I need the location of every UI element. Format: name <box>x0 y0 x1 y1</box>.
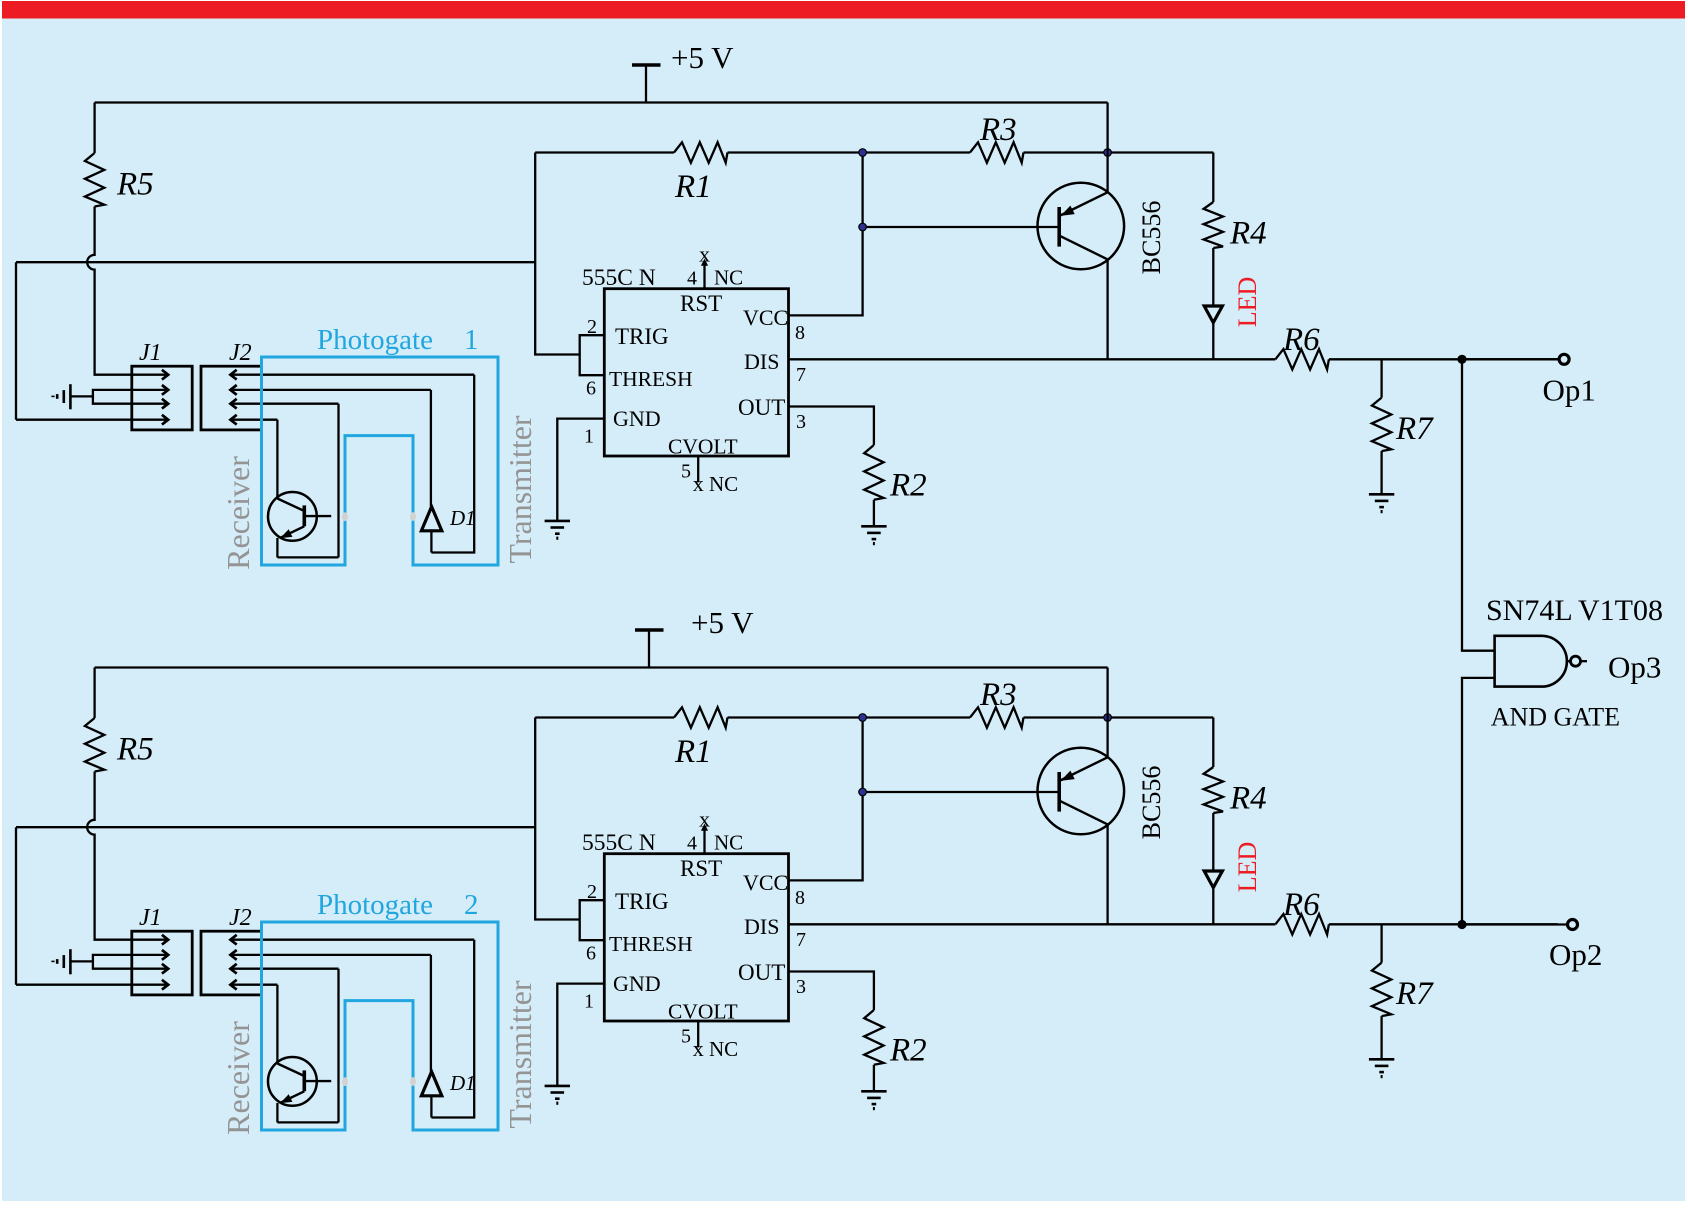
wire: R5 down to J1 pin1 (with hop) (photogate 2 channel) <box>87 772 132 940</box>
wire: rail down to junction (photogate 1 channel) <box>1106 103 1108 153</box>
wire: J1 pins 2-3 tie (photogate 1 channel) <box>93 390 132 404</box>
svg-text:Photogate: Photogate <box>317 324 433 356</box>
svg-text:TRIG: TRIG <box>615 889 669 914</box>
resistor R3 (photogate 2 channel) <box>970 707 1024 727</box>
svg-text:THRESH: THRESH <box>609 932 693 956</box>
svg-text:J2: J2 <box>229 340 252 366</box>
phototransistor circle (photogate 2 channel) <box>268 1057 317 1106</box>
junction dot Op2 node <box>1457 920 1466 929</box>
wire: receiver collector drop (photogate 2 channel) <box>276 985 278 1064</box>
svg-text:DIS: DIS <box>744 914 779 939</box>
svg-text:6: 6 <box>586 378 596 400</box>
svg-text:5: 5 <box>681 1026 691 1048</box>
wire: D1 anode up to J2 pin2 row (photogate 1 channel) <box>430 390 432 507</box>
LED symbol (photogate 2 channel) <box>1204 871 1222 888</box>
svg-text:R4: R4 <box>1229 781 1267 817</box>
IC 555 box (photogate 1 channel) <box>604 289 788 456</box>
wire: collector down to DIS row (photogate 1 channel) <box>1106 259 1108 359</box>
svg-text:D1: D1 <box>449 1071 476 1095</box>
svg-text:CVOLT: CVOLT <box>668 999 738 1023</box>
svg-text:x: x <box>699 807 710 832</box>
phototransistor body (photogate 1 channel) <box>277 499 331 539</box>
resistor R2 (photogate 1 channel) <box>864 445 883 500</box>
svg-text:NC: NC <box>709 472 738 496</box>
svg-text:+5 V: +5 V <box>671 40 734 75</box>
svg-text:RST: RST <box>680 291 722 316</box>
svg-text:R6: R6 <box>1282 887 1320 923</box>
wire: GND pin 1 (photogate 2 channel) <box>557 984 604 1086</box>
wire: receiver up to J2 pin3 row (photogate 1 channel) <box>337 404 339 558</box>
+5V supply symbol (photogate 1 channel) <box>632 65 661 103</box>
resistor R1 (photogate 1 channel) <box>674 142 728 162</box>
wire: R6 to output terminal (photogate 1 channel) <box>1329 358 1558 360</box>
AND gate U1 body <box>1495 636 1567 687</box>
wire: OUT pin 3 (photogate 1 channel) <box>789 407 874 446</box>
wire: J1 pins 2-3 tie (photogate 2 channel) <box>93 955 132 969</box>
svg-text:RST: RST <box>680 856 722 881</box>
diode D1 (IR LED) (photogate 1 channel) <box>421 507 441 531</box>
wire: +5V rail (photogate 2 channel) <box>95 666 1108 668</box>
J1 pin 4 arrow (photogate 1 channel) <box>132 415 168 425</box>
svg-text:SN74L: SN74L <box>1486 594 1573 627</box>
wire: to R4 (photogate 1 channel) <box>1212 153 1214 203</box>
resistor R4 (photogate 1 channel) <box>1204 202 1223 248</box>
svg-text:Op2: Op2 <box>1549 937 1602 972</box>
wire: R3 to R4 branch (photogate 1 channel) <box>1024 151 1214 153</box>
svg-text:Receiver: Receiver <box>220 456 256 570</box>
IC pin labels (photogate 2 channel) <box>609 856 788 1023</box>
resistor R6 (photogate 2 channel) <box>1275 914 1329 934</box>
wire: +5V rail (photogate 1 channel) <box>95 101 1108 103</box>
photogate 1 enclosure (blue) (photogate 1 channel) <box>262 357 499 565</box>
svg-text:J1: J1 <box>139 340 162 366</box>
svg-text:VCC: VCC <box>743 305 788 330</box>
wire: Op2 to AND gate input 2 <box>1462 678 1495 925</box>
svg-text:2: 2 <box>464 889 479 921</box>
junction dot emitter (photogate 2 channel) <box>1104 714 1112 722</box>
svg-text:R2: R2 <box>889 468 927 504</box>
svg-text:GND: GND <box>613 406 661 431</box>
chassis ground at J1 (photogate 1 channel) <box>53 384 70 409</box>
wire: left vertical (photogate 1 channel) <box>15 262 17 420</box>
svg-text:6: 6 <box>586 943 596 965</box>
J2 pin 1 arrow and wire (photogate 2 channel) <box>230 935 474 945</box>
svg-text:Transmitter: Transmitter <box>502 415 538 564</box>
junction dot base (photogate 1 channel) <box>859 223 867 231</box>
wire: to R7 (photogate 1 channel) <box>1380 359 1382 397</box>
resistor R4 (photogate 2 channel) <box>1204 767 1223 813</box>
svg-text:R5: R5 <box>116 167 154 203</box>
wire: TRIG feed horizontal (photogate 2 channel) <box>16 826 535 828</box>
wire: receiver bottom (photogate 2 channel) <box>277 1121 338 1123</box>
wire: ground lead (photogate 1 channel) <box>70 395 93 397</box>
wire: bottom to J1 pin4 (photogate 2 channel) <box>16 984 132 986</box>
ground at 555 GND (photogate 2 channel) <box>545 1086 570 1103</box>
phototransistor circle (photogate 1 channel) <box>268 492 317 541</box>
svg-text:4: 4 <box>687 268 697 290</box>
junction dot base (photogate 2 channel) <box>859 788 867 796</box>
svg-text:OUT: OUT <box>738 395 785 420</box>
svg-text:3: 3 <box>796 411 806 433</box>
svg-text:4: 4 <box>687 833 697 855</box>
svg-text:Transmitter: Transmitter <box>502 980 538 1129</box>
red header bar <box>2 1 1685 19</box>
optical axis dot right (photogate 1 channel) <box>410 512 416 521</box>
wire: VCC pin 8 (photogate 2 channel) <box>789 718 863 881</box>
IC pin numbers (photogate 1 channel) <box>584 268 806 483</box>
IC pin numbers (photogate 2 channel) <box>584 833 806 1048</box>
wire: receiver up to J2 pin3 row (photogate 2 channel) <box>337 969 339 1123</box>
svg-text:CVOLT: CVOLT <box>668 434 738 458</box>
wire: R4 to LED (photogate 1 channel) <box>1212 248 1214 306</box>
J2 pin 2 arrow and wire (photogate 2 channel) <box>230 950 431 960</box>
photogate 2 enclosure (blue) (photogate 2 channel) <box>262 922 499 1130</box>
J2 pin 3 arrow and wire (photogate 1 channel) <box>230 399 338 409</box>
svg-text:NC: NC <box>714 831 743 855</box>
connector J1 box (photogate 2 channel) <box>132 931 192 995</box>
svg-text:5: 5 <box>681 461 691 483</box>
svg-text:BC556: BC556 <box>1137 201 1166 275</box>
wire: Op1 node to terminal <box>1462 358 1558 360</box>
pin 4 NC stub with arrow (photogate 1 channel) <box>701 259 708 289</box>
svg-text:J1: J1 <box>139 905 162 931</box>
wire: R7 to ground (photogate 2 channel) <box>1380 1016 1382 1059</box>
wire: bottom to J1 pin4 (photogate 1 channel) <box>16 419 132 421</box>
wire: OUT pin 3 (photogate 2 channel) <box>789 972 874 1011</box>
wire: emitter down (photogate 1 channel) <box>276 538 278 557</box>
wire: R4 to LED (photogate 2 channel) <box>1212 813 1214 871</box>
svg-text:R1: R1 <box>674 169 712 205</box>
svg-text:TRIG: TRIG <box>615 324 669 349</box>
svg-text:8: 8 <box>795 887 805 909</box>
junction dot R1/R3 (photogate 2 channel) <box>859 714 867 722</box>
phototransistor body (photogate 2 channel) <box>277 1064 331 1104</box>
J2 pin 4 arrow and wire (photogate 2 channel) <box>230 980 277 990</box>
wire: R3 to R4 branch (photogate 2 channel) <box>1024 716 1214 718</box>
pin 5 NC stub (photogate 1 channel) <box>697 456 699 483</box>
+5V supply symbol (photogate 2 channel) <box>635 630 664 668</box>
svg-text:NC: NC <box>714 266 743 290</box>
J2 pin 2 arrow and wire (photogate 1 channel) <box>230 385 431 395</box>
svg-text:R3: R3 <box>979 677 1017 713</box>
svg-text:AND GATE: AND GATE <box>1491 702 1620 731</box>
wire: receiver bottom (photogate 1 channel) <box>277 556 338 558</box>
wire: DIS row (photogate 1 channel) <box>789 358 1276 360</box>
wire: Op2 node to terminal <box>1462 923 1566 925</box>
resistor R3 (photogate 1 channel) <box>970 142 1024 162</box>
wire: LED to DIS row (photogate 1 channel) <box>1212 323 1214 360</box>
svg-text:Photogate: Photogate <box>317 889 433 921</box>
svg-text:DIS: DIS <box>744 349 779 374</box>
svg-text:555C N: 555C N <box>582 265 656 291</box>
svg-text:8: 8 <box>795 322 805 344</box>
wire: junction down to emitter (photogate 2 channel) <box>1106 718 1108 758</box>
svg-text:3: 3 <box>796 976 806 998</box>
junction dot emitter (photogate 1 channel) <box>1104 149 1112 157</box>
svg-text:Op1: Op1 <box>1543 373 1596 408</box>
wire: transmitter right drop (photogate 1 channel) <box>431 375 474 553</box>
svg-text:x: x <box>693 471 704 496</box>
J1 pin 2 arrow (photogate 2 channel) <box>132 950 168 960</box>
svg-text:R5: R5 <box>116 732 154 768</box>
wire: R1 to R3 (photogate 2 channel) <box>728 716 971 718</box>
svg-text:R7: R7 <box>1395 411 1434 447</box>
wire: to R7 (photogate 2 channel) <box>1380 924 1382 962</box>
resistor R2 (photogate 2 channel) <box>864 1010 883 1065</box>
wire: VCC pin 8 (photogate 1 channel) <box>789 153 863 316</box>
connector J2 box (photogate 1 channel) <box>201 366 262 430</box>
LED symbol (photogate 1 channel) <box>1204 306 1222 323</box>
svg-text:LED: LED <box>1233 842 1262 893</box>
wire: D1 anode up to J2 pin2 row (photogate 2 channel) <box>430 955 432 1072</box>
svg-text:GND: GND <box>613 971 661 996</box>
wire: LED to DIS row (photogate 2 channel) <box>1212 888 1214 925</box>
terminal Op1 <box>1559 354 1569 364</box>
AND gate output bubble <box>1567 656 1587 666</box>
ground at R7 (photogate 1 channel) <box>1369 494 1394 511</box>
resistor R5 (photogate 1 channel) <box>85 153 104 207</box>
svg-text:R2: R2 <box>889 1033 927 1069</box>
connector J2 box (photogate 2 channel) <box>201 931 262 995</box>
wire: emitter down (photogate 2 channel) <box>276 1103 278 1122</box>
wire: to R4 (photogate 2 channel) <box>1212 718 1214 768</box>
resistor R1 (photogate 2 channel) <box>674 707 728 727</box>
wire: base wire (photogate 2 channel) <box>863 791 1060 793</box>
resistor R7 (photogate 2 channel) <box>1372 963 1391 1017</box>
svg-text:D1: D1 <box>449 506 476 530</box>
J1 pin 1 arrow (photogate 1 channel) <box>132 370 168 380</box>
wire: rail to R5 (photogate 1 channel) <box>93 103 95 154</box>
wire: R1 to R3 (photogate 1 channel) <box>728 151 971 153</box>
resistor R5 (photogate 2 channel) <box>85 718 104 772</box>
J1 pin 4 arrow (photogate 2 channel) <box>132 980 168 990</box>
svg-text:555C N: 555C N <box>582 830 656 856</box>
svg-text:NC: NC <box>709 1037 738 1061</box>
svg-text:+5 V: +5 V <box>691 605 754 640</box>
svg-text:VCC: VCC <box>743 870 788 895</box>
J1 pin 1 arrow (photogate 2 channel) <box>132 935 168 945</box>
diode D1 (IR LED) (photogate 2 channel) <box>421 1072 441 1096</box>
J2 pin 4 arrow and wire (photogate 1 channel) <box>230 415 277 425</box>
wire: Op1 to AND gate input 1 <box>1462 359 1495 650</box>
resistor R6 (photogate 1 channel) <box>1275 349 1329 369</box>
svg-text:Receiver: Receiver <box>220 1021 256 1135</box>
svg-text:Op3: Op3 <box>1608 650 1661 685</box>
svg-text:1: 1 <box>584 991 594 1013</box>
wire: R1 row left (photogate 1 channel) <box>535 151 674 153</box>
junction dot R1/R3 (photogate 1 channel) <box>859 149 867 157</box>
wire: receiver collector drop (photogate 1 channel) <box>276 420 278 499</box>
wire: junction down to emitter (photogate 1 channel) <box>1106 153 1108 193</box>
svg-text:7: 7 <box>796 929 806 951</box>
svg-text:R7: R7 <box>1395 976 1434 1012</box>
J2 pin 1 arrow and wire (photogate 1 channel) <box>230 370 474 380</box>
svg-text:THRESH: THRESH <box>609 367 693 391</box>
wire: feed vertical from R1 (photogate 1 channel) <box>535 153 580 355</box>
wire: D1 cathode lead (photogate 2 channel) <box>430 1096 432 1118</box>
wire: R7 to ground (photogate 1 channel) <box>1380 451 1382 494</box>
connector J1 box (photogate 1 channel) <box>132 366 192 430</box>
wire: R1 row left (photogate 2 channel) <box>535 716 674 718</box>
wire: TRIG feed horizontal (photogate 1 channel) <box>16 261 535 263</box>
resistor R7 (photogate 1 channel) <box>1372 398 1391 452</box>
svg-text:x: x <box>693 1036 704 1061</box>
wire: base wire (photogate 1 channel) <box>863 226 1060 228</box>
junction dot Op1 node <box>1457 355 1466 364</box>
optical axis dot left (photogate 1 channel) <box>342 512 348 521</box>
wire: rail to R5 (photogate 2 channel) <box>93 668 95 719</box>
svg-text:1: 1 <box>584 426 594 448</box>
ground at 555 GND (photogate 1 channel) <box>545 521 570 538</box>
J1 pin 3 arrow (photogate 2 channel) <box>132 964 168 974</box>
wire: rail down to junction (photogate 2 channel) <box>1106 668 1108 718</box>
svg-text:OUT: OUT <box>738 960 785 985</box>
svg-text:R1: R1 <box>674 734 712 770</box>
svg-text:BC556: BC556 <box>1137 766 1166 840</box>
terminal Op2 <box>1568 920 1578 930</box>
svg-text:R6: R6 <box>1282 322 1320 358</box>
IC 555 box (photogate 2 channel) <box>604 854 788 1021</box>
svg-text:1: 1 <box>464 324 479 356</box>
J2 pin 3 arrow and wire (photogate 2 channel) <box>230 964 338 974</box>
wire: R2 to ground (photogate 2 channel) <box>873 1065 875 1092</box>
wire: GND pin 1 (photogate 1 channel) <box>557 419 604 521</box>
wire: feed vertical from R1 (photogate 2 channel) <box>535 718 580 920</box>
wire: D1 cathode lead (photogate 1 channel) <box>430 531 432 553</box>
svg-text:x: x <box>699 242 710 267</box>
wire: DIS row (photogate 2 channel) <box>789 923 1276 925</box>
svg-text:R4: R4 <box>1229 216 1267 252</box>
ground at R2 (photogate 2 channel) <box>861 1091 886 1108</box>
wire: transmitter right drop (photogate 2 channel) <box>431 940 474 1118</box>
wire: collector down to DIS row (photogate 2 channel) <box>1106 824 1108 924</box>
wire: left vertical (photogate 2 channel) <box>15 827 17 985</box>
J1 pin 2 arrow (photogate 1 channel) <box>132 385 168 395</box>
wire: TRIG-THRESH link (photogate 2 channel) <box>580 900 605 940</box>
wire: TRIG-THRESH link (photogate 1 channel) <box>580 335 605 375</box>
svg-text:R3: R3 <box>979 112 1017 148</box>
optical axis dot right (photogate 2 channel) <box>410 1077 416 1086</box>
wire: R2 to ground (photogate 1 channel) <box>873 500 875 527</box>
wire: ground lead (photogate 2 channel) <box>70 960 93 962</box>
wire: R5 down to J1 pin1 (with hop) (photogate 1 channel) <box>87 207 132 375</box>
IC pin labels (photogate 1 channel) <box>609 291 788 458</box>
transistor Q BC556 (photogate 1 channel) <box>1038 183 1125 270</box>
J1 pin 3 arrow (photogate 1 channel) <box>132 399 168 409</box>
pin 5 NC stub (photogate 2 channel) <box>697 1021 699 1048</box>
ground at R7 (photogate 2 channel) <box>1369 1059 1394 1076</box>
chassis ground at J1 (photogate 2 channel) <box>53 949 70 974</box>
wire: R6 to output terminal (photogate 2 channel) <box>1329 923 1558 925</box>
optical axis dot left (photogate 2 channel) <box>342 1077 348 1086</box>
svg-text:J2: J2 <box>229 905 252 931</box>
svg-text:7: 7 <box>796 364 806 386</box>
pin 4 NC stub with arrow (photogate 2 channel) <box>701 824 708 854</box>
svg-text:LED: LED <box>1233 277 1262 328</box>
ground at R2 (photogate 1 channel) <box>861 526 886 543</box>
svg-text:V1T08: V1T08 <box>1578 594 1663 627</box>
transistor Q BC556 (photogate 2 channel) <box>1038 748 1125 835</box>
